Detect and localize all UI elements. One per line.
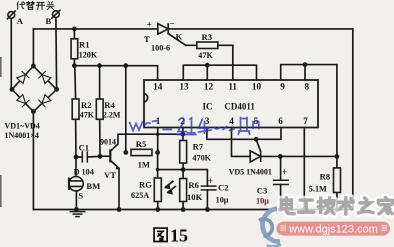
- svg-text:10μ: 10μ: [256, 197, 269, 206]
- wire thyristor gate diagonal: [168, 34, 186, 46]
- wire C3 bottom lead: [280, 185, 282, 210]
- IC pin number labels: [153, 82, 309, 126]
- wire base lead: [100, 155, 110, 157]
- wire C1 horizontal leads: [76, 155, 100, 158]
- svg-text:625A: 625A: [131, 191, 149, 200]
- wire emitter down to ground: [111, 161, 119, 210]
- svg-text:13: 13: [179, 82, 189, 92]
- diode VD4 bottom-right: [38, 95, 51, 108]
- svg-text:C1: C1: [79, 143, 90, 153]
- IC name label: [203, 102, 256, 112]
- resistor R5: [131, 149, 152, 155]
- wire terminal B down to bridge right corner: [55, 18, 58, 90]
- svg-text:www.dgjs123.com: www.dgjs123.com: [288, 223, 378, 235]
- svg-text:5.1M: 5.1M: [309, 185, 327, 194]
- blue scribble watermark: [130, 118, 259, 135]
- diode VD3 bottom-left: [17, 95, 30, 108]
- wire bottom ground rail: [33, 209, 352, 211]
- thyristor T: [158, 23, 168, 34]
- svg-text:1M: 1M: [138, 160, 150, 170]
- svg-text:R2: R2: [81, 100, 92, 110]
- capacitor C2: [201, 186, 217, 190]
- wire R6 leads: [182, 170, 184, 210]
- svg-text:9: 9: [280, 82, 285, 92]
- watermark gray site name dianzigong jishu zhijia: [281, 198, 392, 215]
- svg-text:K: K: [176, 32, 183, 42]
- svg-text:100-6: 100-6: [151, 44, 170, 53]
- wire pin2 stub and R7 leads: [182, 128, 184, 170]
- label daiti-kaiguan (replace switch): [17, 1, 54, 9]
- svg-text:+: +: [147, 20, 152, 30]
- IC U1 CD4011 box: [144, 80, 318, 128]
- svg-text:470K: 470K: [192, 154, 211, 163]
- svg-text:R3: R3: [202, 32, 213, 42]
- bridge rectifier VD1-VD4: [12, 66, 57, 112]
- wire collector to pin2 horizontal: [111, 134, 183, 151]
- svg-text:VT: VT: [104, 170, 116, 180]
- wire RG bottom lead: [157, 202, 159, 210]
- svg-text:R5: R5: [136, 139, 147, 149]
- diode VD5: [250, 151, 261, 162]
- svg-text:C3: C3: [257, 186, 268, 196]
- wire bridge top corner to rail: [32, 29, 34, 66]
- wire VD5 cathode to R8 junction: [261, 155, 337, 157]
- svg-text:+: +: [208, 176, 213, 186]
- watermark red url bar: [277, 222, 391, 236]
- svg-text:R8: R8: [320, 172, 331, 182]
- svg-text:10μ: 10μ: [216, 196, 229, 205]
- photoresistor RG: [154, 178, 176, 202]
- microphone BM: [69, 177, 83, 191]
- diode VD1 top-left: [17, 71, 30, 84]
- svg-text:11: 11: [228, 82, 237, 92]
- svg-text:2.2M: 2.2M: [103, 110, 121, 119]
- svg-text:R4: R4: [104, 100, 115, 110]
- resistor R1: [71, 39, 78, 59]
- svg-text:R6: R6: [188, 180, 199, 190]
- wire pins 9-8 link going to R8 junction: [281, 65, 337, 157]
- resistor R8: [334, 168, 341, 193]
- wire C3 top lead: [280, 156, 282, 180]
- wire terminal A down to bridge left corner: [10, 18, 12, 89]
- wire R8 leads: [336, 156, 338, 209]
- svg-text:BM: BM: [86, 181, 100, 191]
- wire bridge bottom to ground rail: [32, 112, 34, 210]
- wire R2 branch leads: [75, 66, 76, 157]
- svg-text:120K: 120K: [79, 51, 98, 60]
- diode VD2 top-right: [38, 71, 51, 84]
- svg-text:R1: R1: [79, 40, 90, 50]
- resistor R7: [180, 141, 187, 164]
- wire C2 bottom lead: [206, 190, 208, 210]
- svg-text:10: 10: [252, 82, 262, 92]
- svg-text:1N4001×4: 1N4001×4: [5, 131, 39, 140]
- svg-text:10K: 10K: [187, 192, 203, 202]
- wire R1 leads: [73, 29, 75, 66]
- caption figure 15: [154, 225, 188, 245]
- svg-text:VD5 1N4001: VD5 1N4001: [229, 168, 272, 177]
- svg-text:6: 6: [278, 116, 283, 126]
- watermark logo blue swirl: [259, 209, 281, 247]
- wire right edge vertical: [352, 29, 354, 210]
- wire pins 13-12-11-10 link rail: [183, 65, 256, 80]
- capacitor C1: [82, 151, 87, 162]
- wire pin5 drop to VD5 cathode: [256, 139, 260, 151]
- resistor R2: [72, 99, 79, 119]
- svg-text:−: −: [169, 19, 174, 29]
- wire RG top lead: [157, 152, 159, 178]
- wire vertical rail to R5 left: [125, 66, 127, 153]
- capacitor C3: [273, 180, 289, 184]
- resistor R4: [96, 99, 103, 119]
- wire pin4 down to VD5 anode: [232, 128, 251, 157]
- svg-text:IC: IC: [203, 102, 213, 112]
- svg-text:4: 4: [229, 116, 234, 126]
- wire pin3 pin5 pin6 link y139.3: [207, 128, 281, 140]
- wire R3 leads: [186, 44, 233, 46]
- svg-text:12: 12: [204, 82, 214, 92]
- node junction dots: [72, 27, 339, 212]
- svg-text:7: 7: [303, 116, 308, 126]
- resistor R6: [180, 179, 187, 202]
- transistor VT 9014: [110, 149, 119, 169]
- svg-text:9014: 9014: [100, 138, 116, 147]
- wire main top rail: [33, 28, 352, 30]
- wire supply rail y65.7 to pin14: [74, 66, 157, 80]
- wire pin 1 down to R5 right: [157, 128, 159, 153]
- svg-text:R7: R7: [193, 142, 204, 152]
- svg-text:C2: C2: [218, 183, 229, 193]
- svg-text:14: 14: [153, 82, 163, 92]
- svg-text:47K: 47K: [198, 51, 213, 60]
- wire R4 branch leads: [99, 66, 101, 157]
- text labels group: [5, 16, 331, 206]
- svg-text:D 104: D 104: [74, 168, 94, 177]
- ground symbol: [70, 212, 86, 217]
- svg-text:CD4011: CD4011: [224, 102, 255, 112]
- wire mic S down to ground: [75, 191, 77, 210]
- svg-text:VD1~VD4: VD1~VD4: [5, 121, 40, 130]
- svg-text:47K: 47K: [80, 110, 95, 119]
- svg-text:B: B: [46, 16, 52, 26]
- terminal A: [7, 10, 16, 19]
- svg-text:15: 15: [170, 225, 188, 245]
- svg-text:+: +: [282, 167, 287, 177]
- svg-text:8: 8: [305, 82, 310, 92]
- wire C1 junction to mic D: [75, 157, 77, 177]
- left edge scan marks: [0, 57, 2, 207]
- resistor R3: [197, 42, 218, 49]
- svg-text:S: S: [78, 191, 83, 201]
- svg-text:T: T: [144, 34, 150, 44]
- svg-text:RG: RG: [139, 180, 152, 190]
- terminal B: [51, 10, 60, 19]
- wire pin7 down to ground rail: [303, 128, 305, 210]
- wire R3 drop to pin 11: [232, 45, 234, 80]
- wire R7bottom R6top C2 link y169.6: [158, 170, 208, 187]
- svg-text:3: 3: [205, 116, 210, 126]
- svg-text:A: A: [17, 16, 24, 26]
